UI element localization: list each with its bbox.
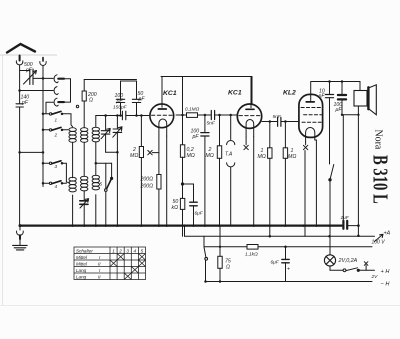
svg-text:5nF: 5nF	[207, 121, 216, 127]
svg-text:200Ω: 200Ω	[140, 177, 154, 183]
svg-text:pF: pF	[25, 68, 33, 74]
svg-text:pF: pF	[116, 99, 124, 105]
svg-text:100 V: 100 V	[372, 240, 386, 246]
svg-text:MΩ: MΩ	[187, 153, 195, 159]
svg-text:pF: pF	[138, 97, 146, 103]
svg-text:150pF: 150pF	[113, 105, 128, 111]
svg-text:Lang: Lang	[76, 268, 87, 273]
svg-text:Lang: Lang	[76, 274, 87, 279]
svg-text:1: 1	[112, 248, 115, 253]
svg-text:μF: μF	[335, 107, 343, 113]
svg-text:6μF: 6μF	[195, 211, 204, 217]
svg-text:Ω: Ω	[226, 265, 230, 271]
svg-text:MΩ: MΩ	[206, 153, 214, 159]
svg-text:KC1: KC1	[228, 90, 242, 97]
svg-text:6μF: 6μF	[271, 260, 280, 266]
svg-text:5: 5	[141, 248, 144, 253]
svg-text:B 310 L: B 310 L	[369, 155, 392, 204]
svg-text:1: 1	[55, 118, 58, 123]
svg-text:Mittel: Mittel	[76, 255, 88, 260]
svg-text:KC1: KC1	[163, 90, 177, 97]
svg-text:2V: 2V	[371, 274, 379, 280]
svg-text:2: 2	[118, 248, 122, 253]
svg-text:200Ω: 200Ω	[140, 184, 154, 190]
svg-text:5nF: 5nF	[273, 114, 282, 120]
svg-text:1μF: 1μF	[341, 215, 350, 221]
svg-text:Nora: Nora	[372, 130, 384, 150]
svg-text:1,1kΩ: 1,1kΩ	[245, 252, 258, 258]
svg-text:4: 4	[134, 248, 137, 253]
svg-text:+A: +A	[384, 231, 391, 237]
svg-text:Mittel: Mittel	[76, 261, 88, 266]
svg-text:5: 5	[100, 182, 103, 187]
svg-text:0,1MΩ: 0,1MΩ	[185, 107, 200, 113]
svg-text:pF: pF	[192, 134, 200, 140]
svg-text:2V,0,2A: 2V,0,2A	[338, 258, 358, 264]
svg-text:kΩ: kΩ	[172, 205, 179, 211]
svg-text:KL2: KL2	[283, 90, 296, 97]
svg-text:+ H: + H	[381, 269, 391, 275]
svg-text:3: 3	[55, 164, 58, 169]
svg-text:pF: pF	[21, 100, 29, 106]
svg-text:2: 2	[54, 133, 58, 138]
svg-text:3: 3	[126, 248, 129, 253]
svg-text:MΩ: MΩ	[288, 154, 296, 160]
svg-text:MΩ: MΩ	[130, 153, 138, 159]
svg-text:MΩ: MΩ	[258, 154, 266, 160]
svg-text:4: 4	[55, 184, 58, 189]
svg-text:− H: − H	[381, 282, 391, 288]
svg-text:nF: nF	[319, 94, 326, 100]
svg-text:Ω: Ω	[89, 98, 93, 104]
svg-text:T.A: T.A	[225, 152, 233, 158]
svg-text:Schalter: Schalter	[76, 248, 93, 253]
svg-text:+: +	[287, 267, 290, 273]
